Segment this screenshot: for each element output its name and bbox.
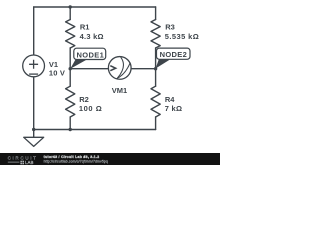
svg-text:http://circuitlab.com/c/7qf3nm: http://circuitlab.com/c/7qf3nm/7dmv5pq (44, 159, 108, 163)
wire R2 top stub (69, 69, 71, 87)
node callout NODE2 (156, 48, 190, 68)
wire R2 bottom stub (69, 117, 71, 130)
voltmeter VM1 (108, 57, 131, 80)
ground (24, 137, 44, 146)
svg-text:R2: R2 (79, 95, 89, 104)
wire R3 bottom stub (155, 48, 157, 69)
wire R4 bottom stub (155, 117, 157, 130)
resistor R4 (151, 86, 160, 117)
svg-text:NODE2: NODE2 (160, 50, 188, 59)
svg-text:4.3 kΩ: 4.3 kΩ (80, 32, 104, 41)
svg-text:tutor43 / Circuit Lab #3, 3.1.: tutor43 / Circuit Lab #3, 3.1.2 (44, 155, 100, 159)
resistor R1 (66, 20, 75, 48)
wire middle left NODE1 to VM1 (70, 68, 108, 70)
wire middle right VM1 to NODE2 (131, 68, 156, 70)
svg-text:R4: R4 (165, 95, 175, 104)
wire R3 top stub (155, 7, 157, 20)
wire bottom horizontal (34, 129, 156, 131)
wire R1 bottom stub (69, 48, 71, 69)
junction node NODE1 (69, 67, 72, 70)
node callout NODE1 (70, 48, 106, 69)
svg-text:7 kΩ: 7 kΩ (165, 104, 183, 113)
wire top horizontal (34, 6, 156, 8)
footer bar (0, 153, 220, 165)
svg-text:100 Ω: 100 Ω (79, 104, 102, 113)
junction node ground (32, 128, 35, 131)
CircuitLab logo (8, 155, 38, 165)
wire left vertical upper (33, 7, 35, 55)
svg-text:R1: R1 (80, 23, 90, 32)
svg-text:R3: R3 (165, 23, 175, 32)
junction node top R1 (69, 5, 72, 8)
resistor R3 (151, 20, 160, 48)
voltage source V1 (23, 55, 45, 77)
wire left vertical lower (33, 77, 35, 130)
junction node NODE2 (154, 67, 157, 70)
wire R1 top stub (69, 7, 71, 20)
svg-text:10 V: 10 V (49, 68, 65, 77)
resistor R2 (66, 86, 75, 117)
svg-text:NODE1: NODE1 (77, 50, 105, 59)
svg-text:5.535 kΩ: 5.535 kΩ (165, 32, 199, 41)
junction node bottom R2 (69, 128, 72, 131)
svg-text:LAB: LAB (25, 160, 34, 165)
wire ground stub (33, 130, 35, 138)
wire R4 top stub (155, 69, 157, 87)
svg-text:VM1: VM1 (112, 86, 127, 95)
